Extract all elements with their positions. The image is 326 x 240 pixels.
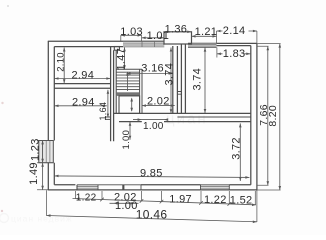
wall A horizontal — [54, 84, 110, 89]
dim line 8.20 — [279, 44, 281, 190]
svg-text:циан недвиж: циан недвиж — [11, 214, 73, 224]
svg-text:1.00: 1.00 — [121, 130, 132, 150]
window W-left 1.23 frame — [39, 141, 54, 163]
wall right inner — [250, 46, 252, 185]
under-stair double arrow — [131, 99, 133, 112]
svg-text:1.22: 1.22 — [76, 193, 97, 204]
window W-top2 1.21 frame — [188, 43, 217, 47]
wall C horizontal bottom line — [119, 121, 251, 123]
window W-top band frame — [123, 40, 164, 42]
svg-text:8.20: 8.20 — [267, 105, 279, 127]
dim line 1.01 — [142, 37, 164, 39]
dim line 3.16 — [127, 73, 173, 75]
dim line 2.14 — [217, 30, 257, 32]
chimney block 1.36 — [164, 32, 192, 44]
svg-text:1.00: 1.00 — [143, 121, 164, 132]
svg-text:1.00: 1.00 — [115, 200, 138, 212]
dimension graphics — [37, 30, 281, 223]
dim line 2.10 — [63, 48, 65, 84]
wall top veranda — [217, 43, 257, 45]
svg-text:1.49: 1.49 — [28, 162, 40, 185]
svg-text:2.02: 2.02 — [147, 95, 170, 107]
window left fill — [39, 141, 54, 163]
dim line 9.85 — [55, 176, 250, 178]
wall D2 vertical pair — [181, 44, 185, 114]
scan specks — [1, 5, 9, 212]
dim line 1.03 — [121, 34, 142, 36]
window top band fill — [123, 41, 164, 47]
stair left wall line — [115, 50, 117, 113]
svg-text:3.72: 3.72 — [231, 137, 243, 160]
wall top inner left segment — [54, 46, 123, 48]
svg-text:1.52: 1.52 — [230, 194, 253, 206]
watermark bottom-left — [0, 214, 73, 224]
wall top outer left segment — [48, 40, 123, 42]
svg-text:1.21: 1.21 — [195, 26, 218, 38]
svg-text:2.14: 2.14 — [223, 25, 246, 37]
dim line 1.00 vertical — [129, 122, 131, 140]
wall bottom outer — [48, 189, 257, 191]
dim line 1.00 horizontal — [133, 119, 166, 121]
dim line 2.02 mid — [142, 105, 175, 107]
svg-text:2.94: 2.94 — [72, 96, 95, 108]
bottom row slash ticks — [100, 198, 231, 206]
door mark between D walls — [177, 92, 181, 95]
svg-text:1.22: 1.22 — [204, 194, 227, 206]
opening 2.02 hollow — [98, 185, 141, 190]
dim line 3.72 — [239, 123, 241, 181]
svg-text:1.03: 1.03 — [120, 26, 143, 38]
dim line 3.74 left — [170, 48, 172, 114]
window fills — [39, 41, 230, 190]
svg-text:2.10: 2.10 — [56, 52, 67, 72]
right ext lines — [257, 44, 281, 190]
dim line 2.94 second — [55, 105, 107, 107]
wall bottom inner — [54, 184, 251, 186]
svg-text:1.23: 1.23 — [29, 138, 41, 161]
window W-bottom0 1.22 hatched — [77, 185, 98, 190]
under-stair box — [119, 96, 140, 114]
svg-text:1.64: 1.64 — [98, 102, 108, 121]
svg-text:10.46: 10.46 — [136, 207, 168, 221]
dim line 3.74 right — [204, 48, 206, 113]
window 1.21 fill — [188, 43, 217, 47]
stair steps — [116, 72, 139, 89]
dim line 1.47 — [124, 47, 126, 69]
window bottom0 fill — [77, 185, 98, 190]
interior spine wall vertical — [111, 47, 114, 141]
svg-text:3.74: 3.74 — [163, 63, 175, 86]
dim line 10.46 — [47, 216, 257, 222]
wall C horizontal top line — [114, 112, 251, 114]
dim line 2.94 top — [55, 78, 111, 80]
svg-text:2.94: 2.94 — [72, 69, 95, 81]
stair right wall — [140, 69, 142, 113]
svg-text:1.83: 1.83 — [223, 48, 246, 60]
stair up arrow — [127, 73, 129, 92]
stub wall room2 — [105, 117, 111, 119]
bottom row ext ticks — [76, 191, 256, 205]
mullion in 2.02 opening — [122, 185, 124, 190]
dim line 1.64 — [107, 90, 109, 118]
stair top line — [116, 68, 142, 70]
dim line 1.83 — [217, 53, 250, 55]
dim line 7.66 — [267, 46, 269, 185]
dim line 1.23 1.49 left — [42, 140, 44, 189]
wall left inner — [53, 47, 55, 185]
dim line 1.21 — [192, 35, 217, 37]
dim line 1.00 bottom — [110, 202, 139, 204]
svg-text:1.97: 1.97 — [169, 193, 192, 205]
dim arrows 1.36 — [164, 30, 192, 33]
window bottom2 fill — [201, 185, 230, 190]
wall left outer — [47, 41, 49, 190]
svg-text:3.74: 3.74 — [192, 68, 204, 91]
window W-bottom2 1.22 — [201, 185, 230, 190]
svg-text:9.85: 9.85 — [140, 168, 163, 180]
svg-text:3.16: 3.16 — [141, 63, 164, 75]
wall D1 vertical pair — [173, 46, 178, 113]
svg-text:1.36: 1.36 — [165, 23, 188, 35]
wall right outer — [256, 43, 258, 190]
stair dark band — [116, 92, 139, 96]
svg-text:1.47: 1.47 — [115, 48, 127, 71]
wall C middle line veranda — [177, 116, 250, 118]
pier box below top wall — [114, 47, 119, 51]
bottom dim row line — [73, 199, 257, 205]
